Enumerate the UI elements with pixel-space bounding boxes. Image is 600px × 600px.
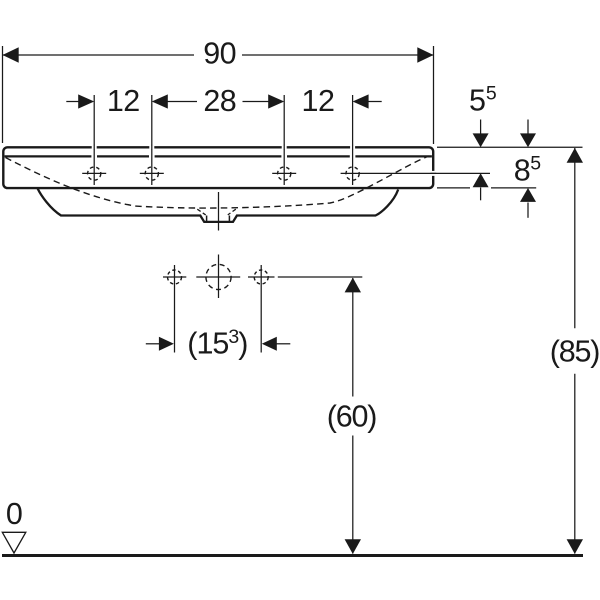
tap hole 2	[140, 167, 164, 180]
wire tail left of 12	[66, 101, 78, 103]
wire ext line left x=2.5	[2, 46, 4, 143]
wire ext line right x=433.5	[433, 46, 435, 144]
wire ext line tap2	[151, 95, 153, 185]
dimension 90	[3, 46, 434, 144]
svg-text:12: 12	[107, 84, 140, 118]
fixing hole left	[163, 265, 186, 353]
wire centerline to 60-dim	[278, 276, 363, 278]
wire gaps where extension lines cross rim top edge	[92, 145, 355, 150]
wire basin rim rect	[3, 147, 433, 188]
wire ext line down to dim	[174, 265, 176, 353]
wire crosshair horizontal	[196, 276, 240, 278]
wire crosshair vertical	[218, 255, 220, 299]
node arrow 60 top	[345, 278, 361, 293]
dimension row 12/28/12	[66, 95, 381, 185]
dimension (85)	[574, 148, 576, 554]
wire 60 line lower	[352, 436, 354, 554]
wire tail right of second 12	[368, 101, 382, 103]
tap hole 1	[82, 167, 106, 180]
fixing hole right	[248, 265, 362, 353]
wire tail below	[527, 203, 529, 218]
wire dim line 28 right	[243, 101, 270, 103]
node arrow 60 bottom	[345, 539, 361, 554]
tap hole 4	[341, 167, 490, 180]
fixing hole middle	[196, 255, 240, 299]
node arrow 12 right	[353, 94, 369, 108]
wire tail above	[480, 120, 482, 134]
svg-text:0: 0	[6, 497, 23, 531]
wire inner rim line segments	[5, 155, 432, 157]
node arrow 28 left	[152, 94, 168, 108]
dimension (60)	[352, 278, 354, 554]
node arrow 90 left	[3, 47, 19, 62]
wire dashed funnel left	[197, 209, 205, 215]
svg-text:5: 5	[530, 153, 541, 175]
dimension (15^3)	[146, 343, 290, 345]
wire bowl outline	[38, 189, 399, 222]
floor line	[2, 554, 583, 557]
node arrow 8 up	[520, 188, 536, 202]
svg-text:28: 28	[203, 84, 236, 118]
wire bottom ext line b	[491, 187, 536, 189]
svg-text:(153): (153)	[187, 326, 247, 360]
node arrow 15 right	[262, 337, 277, 351]
svg-text:5: 5	[469, 84, 486, 118]
node arrow 28 right	[268, 94, 284, 108]
svg-text:90: 90	[203, 37, 236, 71]
wire dashed waterline	[6, 156, 430, 208]
node arrow 90 right	[417, 47, 433, 62]
wire tail right	[276, 343, 290, 345]
wire tail left	[146, 343, 160, 345]
dimension 8^5	[437, 120, 583, 218]
svg-text:5: 5	[486, 83, 497, 105]
wire ext line tap1	[93, 95, 95, 185]
wire 85 line lower	[574, 374, 576, 554]
basin outline	[3, 147, 433, 230]
tap hole 3	[272, 167, 296, 180]
wire ext line tap4	[352, 95, 354, 185]
node arrow 12 left	[78, 94, 94, 108]
node arrow 15 left	[159, 337, 174, 351]
svg-text:8: 8	[514, 153, 531, 187]
wire 85 line upper	[574, 148, 576, 328]
node arrow 8 down	[520, 133, 536, 147]
wire dashed funnel right	[228, 209, 236, 215]
wire drain recess verticals	[206, 216, 208, 222]
wire tail above	[527, 120, 529, 134]
node arrow 85 bottom	[567, 539, 583, 554]
wire dim line 90	[3, 54, 195, 56]
svg-text:(85): (85)	[550, 335, 599, 369]
node arrow 85 top	[567, 148, 583, 163]
wire top ext line	[437, 146, 583, 148]
wire gap where tap centerline crosses basin right edge	[431, 171, 437, 176]
svg-text:12: 12	[302, 84, 335, 118]
node arrow 5 up	[473, 173, 489, 187]
wire 60 line upper	[352, 278, 354, 397]
wire drain centerline upper	[218, 192, 220, 231]
wire tap4 centerline extension	[341, 172, 490, 174]
wire dim line 28 left	[167, 101, 198, 103]
node arrow 5 down	[473, 133, 489, 147]
wire bottom ext line a	[437, 187, 470, 189]
svg-text:(60): (60)	[327, 400, 376, 434]
node datum triangle	[2, 532, 26, 553]
wire ext line tap3	[283, 95, 285, 185]
dimension 5^5	[480, 120, 482, 201]
wire tail below	[480, 188, 482, 201]
